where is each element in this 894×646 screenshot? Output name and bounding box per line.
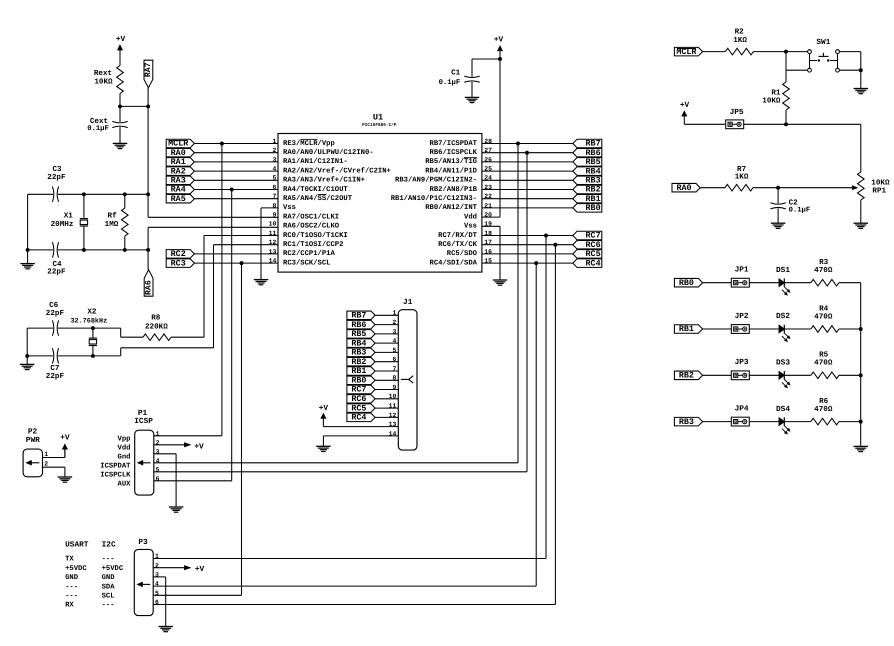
- wire: [703, 282, 732, 284]
- svg-text:ICSP: ICSP: [134, 417, 153, 426]
- U1 pin number 8: [272, 202, 276, 209]
- wire: [482, 244, 573, 246]
- U1 pin number 10: [269, 221, 277, 228]
- junction (ICSPDAT drop): [516, 142, 520, 146]
- wire: [482, 207, 573, 209]
- wire: [703, 374, 732, 376]
- wire: [375, 351, 398, 353]
- svg-text:RE3/MCLR/Vpp: RE3/MCLR/Vpp: [283, 139, 335, 148]
- svg-text:RA0: RA0: [676, 183, 691, 193]
- wire: [194, 143, 278, 145]
- capacitor Cext 0.1uF: [87, 106, 127, 143]
- U1 pin 11 label RC0/T1OSO/T1CKI: [283, 231, 348, 240]
- svg-text:RA7/OSC1/CLKI: RA7/OSC1/CLKI: [283, 212, 339, 221]
- junction (RA4 drop): [230, 188, 234, 192]
- connector J1 body: [398, 298, 417, 450]
- U1 pin number 6: [272, 184, 276, 191]
- svg-text:10: 10: [269, 221, 277, 228]
- wire: [194, 253, 278, 255]
- junction: [859, 68, 863, 72]
- switch SW1: [808, 38, 840, 72]
- wire: [703, 51, 726, 53]
- svg-text:RB0: RB0: [586, 203, 601, 213]
- wire: [375, 324, 398, 326]
- net flag RA0 (analog input): [672, 183, 700, 193]
- wire: [703, 328, 732, 330]
- U1 pin 22 label RB1/AN10/P1C/C12IN3-: [391, 194, 477, 203]
- svg-text:+V: +V: [195, 565, 205, 574]
- wire RC6/TX vertical to P3 pin6: [554, 245, 556, 605]
- svg-text:Vdd: Vdd: [464, 212, 477, 221]
- net flag RA6 (vertical): [144, 270, 153, 296]
- U1 pin 3 label RA1/AN1/C12IN1-: [283, 157, 348, 166]
- junction (ICSPCLK drop): [525, 151, 529, 155]
- ground (SW1): [854, 89, 869, 94]
- svg-text:GND: GND: [65, 574, 79, 582]
- svg-text:0.1µF: 0.1µF: [439, 79, 461, 87]
- U1 pin 6 label RA4/T0CKI/C1OUT: [283, 185, 348, 194]
- svg-text:RB2/AN8/P1B: RB2/AN8/P1B: [430, 185, 478, 194]
- P1 pin number 6: [156, 475, 160, 482]
- P3 table row 5: [65, 593, 114, 601]
- net flag RB3 (LED row): [674, 417, 702, 427]
- net flag RA1: [166, 157, 194, 167]
- svg-text:8: 8: [392, 375, 396, 382]
- wire: [482, 179, 573, 181]
- wire P2 pin1 to +V: [43, 449, 65, 457]
- wire P1 pin6 (AUX): [154, 480, 232, 482]
- net flag RA2: [166, 166, 194, 176]
- net flag RB1: [573, 194, 602, 204]
- P3 table row 3: [65, 574, 115, 582]
- J1 pin number 5: [392, 347, 396, 354]
- svg-text:0.1µF: 0.1µF: [789, 206, 811, 214]
- wire: [784, 374, 811, 376]
- net flag RC7 (J1): [347, 385, 375, 395]
- svg-text:470Ω: 470Ω: [814, 405, 833, 414]
- svg-text:---: ---: [102, 602, 115, 610]
- U1 pin 19 label Vss: [464, 223, 477, 231]
- wire: [194, 189, 278, 191]
- svg-text:9: 9: [272, 212, 276, 219]
- U1 pin 16 label RC5/SDO: [447, 249, 478, 258]
- svg-text:RC4: RC4: [586, 258, 601, 268]
- U1 pin number 1: [272, 138, 276, 145]
- svg-text:4: 4: [155, 581, 159, 588]
- U1 pin 8 label Vss: [283, 204, 296, 212]
- net flag RC5: [573, 249, 602, 259]
- junction: [859, 327, 863, 331]
- svg-text:PWR: PWR: [26, 436, 40, 445]
- junction: [123, 248, 127, 252]
- junction: [82, 248, 86, 252]
- LED DS3: [776, 359, 790, 389]
- U1 pin 17 label RC6/TX/CK: [438, 240, 478, 249]
- U1 pin 24 label RB3/AN9/PGM/C12IN2-: [395, 176, 477, 185]
- svg-text:+5VDC: +5VDC: [65, 565, 87, 573]
- wire: [194, 170, 278, 172]
- jumper JP2: [731, 312, 749, 334]
- P1 pin label Gnd: [118, 453, 131, 462]
- svg-text:RC2/CCP1/P1A: RC2/CCP1/P1A: [283, 249, 335, 258]
- svg-text:JP2: JP2: [735, 312, 749, 321]
- wire P2 pin2 to ground: [43, 467, 65, 477]
- capacitor C3 22pF: [47, 165, 66, 202]
- net flag RB3 (J1): [347, 348, 375, 358]
- svg-text:RB3/AN9/PGM/C12IN2-: RB3/AN9/PGM/C12IN2-: [395, 176, 477, 185]
- svg-text:DS1: DS1: [776, 266, 790, 275]
- svg-text:I2C: I2C: [102, 541, 116, 550]
- svg-text:6: 6: [155, 599, 159, 606]
- wire: [375, 342, 398, 344]
- wire: [703, 421, 732, 423]
- svg-text:8: 8: [272, 202, 276, 209]
- svg-text:RC4/SDI/SDA: RC4/SDI/SDA: [430, 258, 478, 267]
- svg-text:7: 7: [392, 365, 396, 372]
- P1 pin number 5: [156, 466, 160, 473]
- J1 pin number 9: [392, 384, 396, 391]
- wire X2 bottom rail: [27, 348, 213, 356]
- ground (P1): [169, 507, 184, 512]
- svg-text:+V: +V: [60, 433, 70, 442]
- U1 pin number 21: [484, 202, 492, 209]
- svg-text:AUX: AUX: [118, 481, 132, 489]
- wire P3 pin1 (TX): [153, 558, 546, 560]
- svg-text:RA5/AN4/SS/C2OUT: RA5/AN4/SS/C2OUT: [283, 194, 353, 203]
- wire P3 pin6 (RX): [153, 604, 555, 606]
- wire: [482, 262, 573, 264]
- U1 pin 10 label RA6/OSC2/CLKO: [283, 222, 340, 231]
- svg-text:22pF: 22pF: [46, 372, 65, 381]
- net flag MCLR: [166, 139, 194, 149]
- P2 pin number 2: [44, 461, 48, 468]
- svg-text:1MΩ: 1MΩ: [105, 220, 119, 229]
- svg-text:R5: R5: [819, 352, 829, 360]
- svg-text:Rext: Rext: [94, 69, 112, 78]
- svg-text:J1: J1: [403, 298, 413, 307]
- svg-text:RA0/AN0/ULPWU/C12IN0-: RA0/AN0/ULPWU/C12IN0-: [283, 148, 374, 157]
- svg-text:R3: R3: [819, 258, 829, 267]
- ground (C2): [771, 223, 786, 228]
- U1 pin 20 label Vdd: [464, 212, 477, 221]
- svg-text:ICSPCLK: ICSPCLK: [100, 472, 131, 480]
- svg-text:X2: X2: [87, 307, 97, 316]
- svg-text:22pF: 22pF: [47, 173, 66, 182]
- wire RC4/SDA vertical to P3 pin4: [535, 263, 537, 586]
- wire: [194, 262, 278, 264]
- net flag RC5 (J1): [347, 403, 375, 413]
- resistor R4 470: [811, 305, 839, 332]
- J1 pin number 3: [392, 328, 396, 335]
- ground (Vss pin 8): [254, 280, 269, 285]
- U1 pin number 9: [272, 212, 276, 219]
- net flag RB0 (J1): [347, 376, 375, 386]
- svg-text:RA2/AN2/Vref-/CVref/C2IN+: RA2/AN2/Vref-/CVref/C2IN+: [283, 166, 391, 175]
- svg-text:5: 5: [392, 347, 396, 354]
- ground (X1): [20, 250, 34, 269]
- P3 table header USART: [65, 541, 89, 550]
- svg-text:TX: TX: [65, 556, 74, 564]
- resistor R7 1K: [725, 166, 778, 191]
- jumper JP5: [726, 108, 744, 129]
- svg-text:2: 2: [392, 319, 396, 326]
- P3 pin number 2: [155, 562, 159, 569]
- wire RC1/T1OSI vertical: [214, 245, 279, 348]
- wire RA6/OSC2 pin10: [148, 226, 278, 228]
- U1 pin number 24: [484, 175, 492, 182]
- svg-text:RC7/RX/DT: RC7/RX/DT: [438, 231, 478, 240]
- capacitor C4 22pF: [47, 242, 66, 276]
- svg-text:RB1: RB1: [679, 324, 694, 334]
- net flag RB5 (J1): [347, 329, 375, 339]
- net flag RC4: [573, 258, 602, 268]
- net flag RB0 (LED row): [674, 278, 702, 288]
- wire: [749, 421, 779, 423]
- P1 pin number 3: [156, 448, 160, 455]
- U1 pin number 27: [484, 147, 492, 154]
- junction: [146, 248, 150, 252]
- resistor R8 220K: [143, 313, 204, 340]
- svg-text:6: 6: [156, 475, 160, 482]
- P1 pin number 4: [156, 457, 160, 464]
- svg-text:12: 12: [269, 239, 277, 246]
- svg-text:5: 5: [272, 175, 276, 182]
- P1 pin label ICSPDAT: [100, 463, 131, 471]
- jumper JP1: [731, 266, 749, 288]
- junction: [784, 122, 788, 126]
- svg-text:Vss: Vss: [283, 204, 296, 212]
- wire: [749, 374, 779, 376]
- U1 pin number 3: [272, 156, 276, 163]
- wire: [684, 123, 725, 125]
- wire: [749, 328, 779, 330]
- connector P1 ICSP body: [134, 409, 154, 495]
- junction: [82, 192, 86, 196]
- net flag RB5: [573, 157, 602, 167]
- power +V (Vdd): [494, 35, 504, 59]
- svg-text:1: 1: [392, 310, 396, 317]
- svg-text:DS4: DS4: [776, 405, 790, 414]
- svg-text:RB4/AN11/P1D: RB4/AN11/P1D: [425, 166, 477, 175]
- junction: [498, 57, 502, 61]
- ground (X2): [20, 356, 35, 370]
- svg-text:1: 1: [156, 430, 160, 437]
- wire RA4 vertical to P1 pin6: [231, 190, 233, 481]
- svg-text:10KΩ: 10KΩ: [871, 178, 890, 187]
- svg-text:C1: C1: [451, 68, 461, 77]
- U1 pin 13 label RC2/CCP1/P1A: [283, 249, 335, 258]
- capacitor C6 22pF: [46, 301, 65, 336]
- wire J1 pin13 to +V: [323, 426, 398, 428]
- wire: [194, 179, 278, 181]
- jumper JP3: [731, 358, 749, 380]
- net flag RC6: [573, 240, 602, 250]
- connector P3 body: [134, 538, 153, 616]
- resistor Rf 1M: [105, 194, 128, 250]
- wire: [784, 421, 811, 423]
- net flag RB1 (LED row): [674, 324, 702, 334]
- svg-text:RB7/ICSPDAT: RB7/ICSPDAT: [430, 139, 478, 148]
- J1 pin number 11: [389, 403, 397, 410]
- svg-text:R4: R4: [819, 305, 829, 313]
- U1 pin 12 label RC1/T1OSI/CCP2: [283, 240, 343, 249]
- svg-text:+V: +V: [494, 35, 504, 44]
- ground (J1): [316, 446, 331, 451]
- wire J1 pin14 to ground: [323, 436, 398, 446]
- wire R7 to RP1 wiper: [778, 186, 858, 190]
- junction: [146, 104, 150, 108]
- wire: [375, 379, 398, 381]
- svg-text:1KΩ: 1KΩ: [733, 36, 747, 45]
- svg-text:0.1µF: 0.1µF: [87, 125, 109, 133]
- crystal X2 32.768kHz: [70, 307, 107, 356]
- U1 pin number 7: [272, 193, 276, 200]
- svg-text:PIC16F886-I/P: PIC16F886-I/P: [362, 122, 397, 128]
- U1 pin 1 label RE3/MCLR/Vpp: [283, 139, 335, 148]
- svg-text:SDA: SDA: [102, 583, 116, 591]
- U1 pin number 28: [484, 138, 492, 145]
- svg-text:RA6: RA6: [144, 280, 153, 295]
- wire OSC2 node down to RA6 flag: [147, 227, 149, 269]
- svg-text:R2: R2: [735, 28, 745, 37]
- wire: [375, 361, 398, 363]
- wire: [839, 421, 861, 423]
- P3 pin2 +V arrow: [153, 565, 204, 574]
- net flag RA4: [166, 185, 194, 195]
- wire P3 pin4 (SDA): [153, 585, 536, 587]
- svg-text:10KΩ: 10KΩ: [94, 78, 113, 87]
- svg-text:22pF: 22pF: [46, 309, 65, 318]
- svg-text:C6: C6: [49, 301, 59, 310]
- ground (P2): [58, 477, 73, 482]
- wire P1 pin1 (Vpp): [154, 435, 222, 437]
- wire: [375, 314, 398, 316]
- U1 pin 15 label RC4/SDI/SDA: [430, 258, 478, 267]
- U1 pin number 4: [272, 166, 276, 173]
- svg-text:5: 5: [155, 590, 159, 597]
- capacitor C2 0.1uF: [770, 188, 810, 224]
- junction (SDA drop): [534, 261, 538, 265]
- junction: [91, 354, 95, 358]
- svg-text:RX: RX: [65, 602, 74, 610]
- svg-text:C3: C3: [52, 165, 62, 174]
- power +V (JP5): [680, 101, 690, 124]
- J1 pin number 10: [389, 393, 397, 400]
- svg-text:Rf: Rf: [108, 211, 118, 220]
- svg-text:X1: X1: [64, 212, 74, 220]
- J1 pin number 4: [392, 338, 396, 345]
- wire: [784, 328, 811, 330]
- U1 pin number 16: [484, 248, 492, 255]
- ground (RP1): [854, 223, 869, 228]
- U1 pin number 5: [272, 175, 276, 182]
- wire: [482, 253, 573, 255]
- wire RB6/ICSPCLK vertical to P1 pin5: [526, 153, 528, 472]
- wire: [839, 282, 861, 284]
- svg-text:Vss: Vss: [464, 223, 477, 231]
- svg-text:20MHz: 20MHz: [51, 220, 74, 229]
- net flag RA5: [166, 194, 194, 204]
- J1 pin number 14: [389, 430, 397, 437]
- P1 pin label ICSPCLK: [100, 472, 131, 480]
- U1 pin 4 label RA2/AN2/Vref-/CVref/C2IN+: [283, 166, 391, 175]
- power +V (P2): [60, 433, 70, 457]
- svg-text:R1: R1: [771, 90, 781, 98]
- svg-text:12: 12: [389, 412, 397, 419]
- svg-text:SCL: SCL: [102, 593, 115, 601]
- svg-text:32.768kHz: 32.768kHz: [70, 317, 107, 325]
- svg-text:2: 2: [156, 439, 160, 446]
- P1 pin label Vdd: [118, 444, 131, 453]
- net flag RB3: [573, 176, 602, 186]
- svg-text:11: 11: [389, 403, 397, 410]
- wire SW1 right pole to ground: [839, 52, 860, 89]
- U1 pin number 18: [484, 230, 492, 237]
- wire: [482, 152, 573, 154]
- ground (LED rail): [853, 446, 868, 451]
- svg-text:SW1: SW1: [816, 38, 830, 47]
- net flag RC3: [166, 258, 194, 268]
- wire X1 bottom rail: [28, 249, 149, 251]
- svg-text:U1: U1: [373, 112, 383, 122]
- P3 pin number 6: [155, 599, 159, 606]
- svg-text:3: 3: [156, 448, 160, 455]
- J1 pin number 6: [392, 356, 396, 363]
- wire: [839, 328, 861, 330]
- wire node Rext/Cext to RA7: [120, 105, 148, 107]
- svg-text:JP5: JP5: [730, 108, 744, 117]
- resistor Rext 10K: [94, 58, 123, 106]
- U1 pin number 26: [484, 156, 492, 163]
- svg-text:RA3/AN3/Vref+/C1IN+: RA3/AN3/Vref+/C1IN+: [283, 176, 365, 185]
- svg-text:RA6/OSC2/CLKO: RA6/OSC2/CLKO: [283, 222, 340, 231]
- P2 pin number 1: [44, 451, 48, 458]
- power +V (J1): [319, 404, 329, 426]
- P3 table row 2: [65, 565, 124, 573]
- wire P3 pin3 (GND): [153, 577, 166, 627]
- svg-text:RC4: RC4: [351, 413, 366, 423]
- svg-text:+5VDC: +5VDC: [102, 565, 124, 573]
- wire P1 pin4 (ICSPDAT): [154, 462, 518, 464]
- wire: [482, 235, 573, 237]
- potentiometer RP1 10K: [858, 172, 890, 223]
- svg-text:R6: R6: [819, 397, 829, 406]
- wire: [700, 187, 725, 189]
- ground (P3): [158, 627, 173, 632]
- U1 pin number 20: [484, 212, 492, 219]
- wire MCLR vertical to P1 pin1: [221, 144, 223, 436]
- wire JP5 to RP1 top: [744, 124, 861, 172]
- connector P2 PWR body: [23, 427, 42, 476]
- wire RC7/RX vertical to P3 pin1: [545, 236, 547, 559]
- wire: [482, 170, 573, 172]
- P3 table header I2C: [102, 541, 116, 550]
- P3 pin number 1: [155, 553, 159, 560]
- net flag RA3: [166, 176, 194, 186]
- U1 pin 18 label RC7/RX/DT: [438, 231, 478, 240]
- svg-text:RC5/SDO: RC5/SDO: [447, 249, 478, 258]
- capacitor C1 0.1uF: [439, 59, 480, 97]
- svg-text:470Ω: 470Ω: [814, 266, 833, 275]
- wire: [482, 189, 573, 191]
- svg-text:+V: +V: [319, 404, 329, 413]
- U1 pin 23 label RB2/AN8/P1B: [430, 185, 478, 194]
- net flag RC2: [166, 249, 194, 259]
- wire RC3/SCL vertical to P3 pin5: [241, 263, 243, 595]
- net flag RB2: [573, 185, 602, 195]
- P1 pin label Vpp: [118, 436, 131, 444]
- svg-text:RC3/SCK/SCL: RC3/SCK/SCL: [283, 258, 330, 267]
